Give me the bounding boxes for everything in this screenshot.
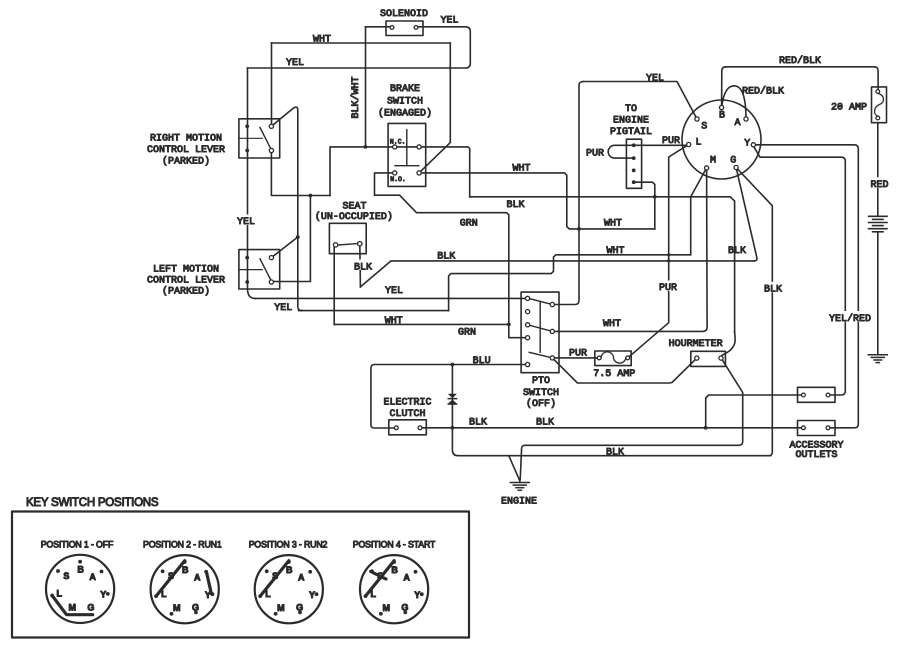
node junction BLK/WHT at N.C. wire xyxy=(364,145,368,149)
wire accessory outlet upper-left link xyxy=(706,395,804,428)
solenoid terminal left xyxy=(390,26,394,30)
svg-text:YEL/RED: YEL/RED xyxy=(829,313,871,325)
seat terminal left xyxy=(333,243,337,247)
wire key Y east to outlet (lower) xyxy=(753,145,858,428)
svg-text:N.O.: N.O. xyxy=(390,176,406,183)
node junction YEL vertical at WHT wire xyxy=(577,227,581,231)
svg-text:BLU: BLU xyxy=(473,356,491,367)
wire WHT right drop to brake N.O. xyxy=(419,43,450,173)
brake plunger xyxy=(406,130,408,166)
svg-text:N.C.: N.C. xyxy=(390,139,406,146)
svg-text:SWITCH: SWITCH xyxy=(387,97,423,108)
svg-text:SEAT: SEAT xyxy=(342,202,366,213)
wire PTO C to 7.5A fuse (PUR) xyxy=(552,357,599,359)
right lever terminal TL xyxy=(245,124,249,128)
label BLK (seat) xyxy=(353,260,374,271)
brake switch box xyxy=(388,123,426,186)
wire G to BLK vertical xyxy=(458,168,772,456)
svg-text:M: M xyxy=(710,156,716,167)
PTO terminal L3 xyxy=(526,323,530,327)
left motion control lever switch box xyxy=(239,250,280,289)
svg-text:B: B xyxy=(77,565,84,575)
PTO terminal R3 xyxy=(550,356,554,360)
wire YEL from S-diagonal down to PTO terminal A xyxy=(552,82,583,305)
svg-text:BLK: BLK xyxy=(354,262,372,273)
svg-text:M: M xyxy=(277,603,285,613)
svg-text:BLK/WHT: BLK/WHT xyxy=(350,76,362,118)
wire BLK clutch to accessory outlet xyxy=(420,427,803,429)
svg-text:POSITION 1 - OFF: POSITION 1 - OFF xyxy=(41,539,114,549)
svg-text:WHT: WHT xyxy=(604,218,622,229)
svg-text:A: A xyxy=(298,573,305,583)
svg-text:BLK: BLK xyxy=(764,284,782,295)
right lever terminal TR xyxy=(269,124,273,128)
pigtail terminal 2 xyxy=(632,156,636,160)
svg-text:LEFT MOTION: LEFT MOTION xyxy=(153,264,219,275)
key switch circle xyxy=(682,100,761,179)
svg-text:PUR: PUR xyxy=(659,283,677,294)
clutch terminal right xyxy=(418,426,422,430)
right motion control lever switch box xyxy=(239,119,280,158)
svg-text:ENGINE: ENGINE xyxy=(501,497,537,508)
wire seat left terminal drop xyxy=(333,244,335,324)
node hop PUR at WHT wire xyxy=(667,253,670,256)
battery xyxy=(869,216,887,232)
wire brake N.C. contact xyxy=(395,146,419,148)
wire BLK from seat diagonal east xyxy=(360,261,754,287)
wire 20A fuse to battery xyxy=(877,123,879,216)
wire brake N.C. right to east drop xyxy=(419,147,470,197)
right lever terminal BR xyxy=(269,148,273,152)
label RED xyxy=(869,177,890,188)
svg-text:YEL: YEL xyxy=(646,73,664,84)
wire GRN down to PTO terminal 4 xyxy=(509,324,528,337)
fuse 20 AMP element xyxy=(875,93,884,116)
svg-text:CONTROL LEVER: CONTROL LEVER xyxy=(147,145,225,156)
svg-text:L: L xyxy=(57,589,63,599)
key terminal G xyxy=(734,165,738,169)
svg-text:PUR: PUR xyxy=(586,148,604,159)
wire YEL horizontal to S diagonal xyxy=(583,82,697,120)
seat terminal right xyxy=(358,242,362,246)
svg-text:WHT: WHT xyxy=(313,34,331,45)
svg-text:RED/BLK: RED/BLK xyxy=(742,85,784,97)
pigtail terminal 1 xyxy=(632,143,636,147)
node junction pigtail drop at kill wire xyxy=(653,195,657,199)
left lever arm xyxy=(260,259,271,280)
svg-text:A: A xyxy=(89,572,96,582)
hourmeter terminal left xyxy=(695,356,699,360)
wire WHT mid vertical from kill junction xyxy=(690,197,692,255)
left lever terminal BL xyxy=(245,280,249,284)
wire RED/BLK top to 20A fuse xyxy=(726,67,878,92)
svg-text:M: M xyxy=(68,603,76,613)
PTO lever 2 xyxy=(528,325,553,332)
svg-text:20 AMP: 20 AMP xyxy=(831,103,867,114)
clutch terminal left xyxy=(394,426,398,430)
engine pigtail connector box xyxy=(626,139,641,188)
ground symbol (engine) xyxy=(510,483,529,491)
svg-text:A: A xyxy=(734,118,740,129)
wire right lever diagonal to vertical xyxy=(271,107,301,311)
svg-text:TO: TO xyxy=(625,104,637,115)
solenoid terminal right xyxy=(414,26,418,30)
svg-text:(ENGAGED): (ENGAGED) xyxy=(378,108,432,120)
wire brake N.O. right east (WHT) xyxy=(419,173,655,229)
outlet upper terminal left xyxy=(802,393,806,397)
wire BLK curve up to G terminal xyxy=(736,168,757,261)
svg-text:(UN-OCCUPIED): (UN-OCCUPIED) xyxy=(315,211,393,223)
diode D1 (clutch suppression) xyxy=(448,394,458,405)
solenoid box xyxy=(386,21,423,36)
svg-text:B: B xyxy=(719,111,725,122)
wire GRN west to seat terminal drop xyxy=(334,323,509,325)
svg-text:M: M xyxy=(382,603,390,613)
wire right lever bottom-right drop xyxy=(271,151,330,196)
key position diagram 4: POSITION 4 - START xyxy=(353,539,436,623)
wire PTO C diagonal to hourmeter left xyxy=(552,358,697,383)
PTO lever 1 xyxy=(528,298,553,304)
svg-text:PUR: PUR xyxy=(662,136,680,147)
key terminal M xyxy=(705,166,709,170)
ground symbol (battery) xyxy=(868,355,887,363)
wire lever wire up to brake N.C. left xyxy=(330,147,395,196)
svg-text:YEL: YEL xyxy=(274,303,292,314)
svg-text:WHT: WHT xyxy=(385,316,403,327)
wire hourmeter right to BLK engine wire xyxy=(525,358,743,445)
svg-text:Y: Y xyxy=(309,590,315,600)
wire solenoid left lead (BLK/WHT top) xyxy=(366,26,393,28)
svg-text:(OFF): (OFF) xyxy=(526,398,556,410)
wire pigtail PUR to key L xyxy=(634,144,689,146)
PTO terminal L5 xyxy=(526,362,530,366)
svg-text:HOURMETER: HOURMETER xyxy=(669,339,723,350)
wire key Y diagonal east to outlet (upper) xyxy=(753,146,845,395)
wire YEL horizontal to PTO terminal 1 xyxy=(255,297,528,299)
svg-text:POSITION 3 - RUN2: POSITION 3 - RUN2 xyxy=(249,539,328,549)
wire battery to ground xyxy=(877,233,879,355)
label YEL/RED xyxy=(828,311,872,322)
wire hourmeter right S-curve xyxy=(721,332,735,356)
svg-text:(PARKED): (PARKED) xyxy=(162,155,210,167)
wire left lever top-right diagonal xyxy=(271,237,297,258)
brake N.C. terminal right xyxy=(417,145,421,149)
left lever inner bar xyxy=(239,269,262,271)
outlet upper terminal right xyxy=(826,393,830,397)
svg-text:ELECTRIC: ELECTRIC xyxy=(383,398,431,409)
svg-text:SOLENOID: SOLENOID xyxy=(380,9,428,20)
wire solenoid right YEL loop xyxy=(248,27,471,68)
svg-text:SWITCH: SWITCH xyxy=(523,388,559,399)
wire RED/BLK loop B to A xyxy=(722,86,746,119)
svg-text:G: G xyxy=(87,602,94,612)
key position diagram 1: POSITION 1 - OFF xyxy=(41,539,114,623)
wire BLK engine V right leg xyxy=(520,445,524,480)
svg-text:S: S xyxy=(701,122,707,133)
svg-text:POSITION 2 - RUN1: POSITION 2 - RUN1 xyxy=(143,539,222,549)
node hop PUR at BLK wire xyxy=(667,259,670,262)
seat switch arm xyxy=(336,243,360,245)
svg-text:Y: Y xyxy=(744,139,750,150)
svg-text:7.5 AMP: 7.5 AMP xyxy=(593,369,635,380)
wire M terminal diagonal xyxy=(691,168,707,197)
left lever terminal TR xyxy=(269,256,273,260)
svg-text:BLK: BLK xyxy=(728,246,746,257)
key position diagram 2: POSITION 2 - RUN1 xyxy=(143,539,222,623)
outlet lower terminal left xyxy=(802,426,806,430)
brake N.O. terminal left xyxy=(393,171,397,175)
node junction BLU at diode xyxy=(451,363,455,367)
node junction lever vertical / left lever diagonal xyxy=(296,235,300,239)
PTO terminal L4 xyxy=(526,336,530,340)
svg-text:YEL: YEL xyxy=(237,217,255,228)
PTO lever 3 xyxy=(529,352,552,358)
svg-text:Y: Y xyxy=(100,590,106,600)
svg-text:M: M xyxy=(173,603,181,613)
key terminal S xyxy=(695,117,699,121)
right lever terminal BL xyxy=(245,149,249,153)
wire seat right terminal drop xyxy=(359,244,362,287)
svg-text:B: B xyxy=(391,565,398,575)
svg-text:PTO: PTO xyxy=(532,376,550,387)
svg-text:RED: RED xyxy=(870,180,888,191)
wire BLK engine V left leg xyxy=(509,456,520,480)
node junction diode at BLK clutch wire xyxy=(451,426,455,430)
key position diagram 3: POSITION 3 - RUN2 xyxy=(249,539,328,623)
svg-text:WHT: WHT xyxy=(512,163,530,174)
svg-text:BLK: BLK xyxy=(437,251,455,262)
brake N.C. terminal left xyxy=(393,145,397,149)
key terminal Y xyxy=(751,143,755,147)
pigtail terminal 3 xyxy=(632,169,636,173)
wire M terminal straight down to PTO B xyxy=(552,168,707,332)
svg-text:L: L xyxy=(695,138,701,149)
svg-text:KEY SWITCH POSITIONS: KEY SWITCH POSITIONS xyxy=(26,496,159,509)
label YEL (lever column) xyxy=(236,215,257,226)
fuse 7.5 AMP terminal left xyxy=(597,356,601,360)
wire WHT horizontal (seat net) xyxy=(449,255,691,311)
wire kill horizontal N.C. to hourmeter xyxy=(470,197,735,332)
outlet lower terminal right xyxy=(826,426,830,430)
PTO terminal R2 xyxy=(550,329,554,333)
svg-text:B: B xyxy=(286,565,293,575)
PTO mechanical link xyxy=(539,302,541,353)
wire engine pigtail t4 drop xyxy=(634,182,655,229)
svg-text:BLK: BLK xyxy=(469,417,487,428)
wire BLU from clutch to PTO terminal 5 xyxy=(371,365,528,429)
wire pigtail PUR loop xyxy=(608,145,634,158)
wire engine ground stem xyxy=(519,479,521,482)
left lever terminal BR xyxy=(269,280,273,284)
svg-text:RIGHT MOTION: RIGHT MOTION xyxy=(150,133,222,144)
PTO terminal L2 xyxy=(526,310,530,314)
svg-text:S: S xyxy=(63,571,69,581)
key terminal L xyxy=(687,142,691,146)
svg-text:(PARKED): (PARKED) xyxy=(162,285,210,297)
wire YEL left vertical through lever switches xyxy=(248,68,256,298)
PTO terminal L1 xyxy=(526,296,530,300)
seat switch box xyxy=(329,223,366,253)
svg-text:POSITION 4 - START: POSITION 4 - START xyxy=(353,539,436,549)
svg-text:YEL: YEL xyxy=(286,58,304,69)
fuse 20 AMP box xyxy=(872,87,887,123)
svg-text:BRAKE: BRAKE xyxy=(390,84,420,95)
svg-text:PUR: PUR xyxy=(569,348,587,359)
PTO terminal R1 xyxy=(550,302,554,306)
electric clutch box xyxy=(389,420,427,435)
wire key B riser xyxy=(722,67,726,108)
svg-text:YEL: YEL xyxy=(385,286,403,297)
key terminal B xyxy=(720,105,724,109)
PTO switch box xyxy=(521,292,559,373)
svg-text:CLUTCH: CLUTCH xyxy=(389,409,425,420)
fuse 7.5 AMP element xyxy=(601,352,626,363)
wire diode branch corner to BLK low wire xyxy=(452,365,458,456)
brake plunger bar xyxy=(395,165,419,167)
svg-text:YEL: YEL xyxy=(440,15,458,26)
fuse 7.5 AMP box xyxy=(595,351,631,366)
svg-text:WHT: WHT xyxy=(606,246,624,257)
wire branch to left lever bottom-right xyxy=(271,196,310,282)
key terminal A xyxy=(744,117,748,121)
right lever arm xyxy=(260,128,271,149)
node junction at lever wire xyxy=(309,194,313,198)
svg-text:ENGINE: ENGINE xyxy=(613,116,649,127)
left lever terminal TL xyxy=(245,256,249,260)
wire 7.5A fuse to PUR vertical to L xyxy=(628,145,689,358)
svg-text:A: A xyxy=(403,573,410,583)
svg-text:A: A xyxy=(194,573,201,583)
svg-text:GRN: GRN xyxy=(458,328,476,339)
wire WHT lower horizontal xyxy=(299,310,449,312)
svg-text:BLK: BLK xyxy=(606,448,624,459)
svg-text:GRN: GRN xyxy=(460,218,478,229)
key positions panel box xyxy=(12,512,469,638)
svg-text:G: G xyxy=(730,156,736,167)
fuse 20 AMP terminal bottom xyxy=(876,116,880,120)
wire brake N.O. left jog (GRN) xyxy=(375,173,509,325)
svg-text:Y: Y xyxy=(414,590,420,600)
accessory outlet upper box xyxy=(798,387,836,402)
node junction outlet link at BLK wire xyxy=(704,426,708,430)
hourmeter box xyxy=(691,351,726,366)
svg-text:PIGTAIL: PIGTAIL xyxy=(610,127,652,138)
wire BLK/WHT vertical drop to brake N.C. xyxy=(365,27,367,147)
accessory outlet lower box xyxy=(798,421,836,436)
brake N.O. terminal right xyxy=(417,171,421,175)
svg-text:BLK: BLK xyxy=(536,417,554,428)
hourmeter terminal right xyxy=(719,356,723,360)
svg-text:CONTROL LEVER: CONTROL LEVER xyxy=(147,276,225,287)
wire WHT top horizontal xyxy=(272,42,451,44)
label PUR (vertical) xyxy=(658,281,679,292)
right lever inner bar xyxy=(239,137,262,139)
svg-text:B: B xyxy=(182,565,189,575)
svg-text:BLK: BLK xyxy=(506,200,524,211)
fuse 7.5 AMP terminal right xyxy=(626,356,630,360)
node junction GRN at seat branch xyxy=(507,323,511,327)
svg-text:RED/BLK: RED/BLK xyxy=(779,55,821,67)
svg-text:OUTLETS: OUTLETS xyxy=(795,450,837,461)
fuse 20 AMP terminal top xyxy=(876,90,880,94)
pigtail terminal 4 xyxy=(632,180,636,184)
wire WHT drop into right lever switch xyxy=(271,43,273,126)
svg-text:WHT: WHT xyxy=(603,319,621,330)
label BLK (G vertical) xyxy=(763,282,784,293)
